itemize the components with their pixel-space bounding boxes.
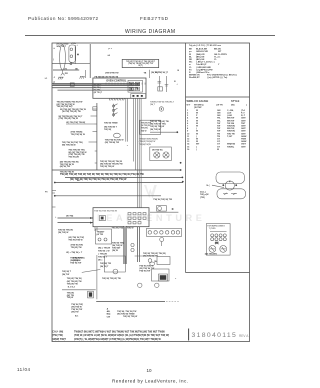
svg-text:Prrwrig/BPW-DLPW: Prrwrig/BPW-DLPW: [189, 68, 213, 71]
svg-text:(W TW( W(: (W TW( W(: [152, 149, 163, 151]
chassis ground left: [58, 77, 64, 79]
ERC internal contacts: [99, 216, 105, 221]
legend text lines: [189, 44, 237, 79]
legend box: [186, 43, 250, 273]
svg-text:Rendered by LeadVenture, Inc.: Rendered by LeadVenture, Inc.: [112, 379, 188, 384]
svg-text:TW( W: TW( W: [67, 297, 74, 299]
shelf line with terminal: [52, 63, 72, 65]
svg-text:(W TW( TW( W( TW: (W TW( TW( W( TW: [62, 111, 81, 113]
ERC bottom stubs: [94, 227, 96, 231]
svg-text:(CW(T( (, W, W(W(TW(H W(W(T (C: (CW(T( (, W, W(W(TW(H W(W(T (CTW(TW(( (L…: [74, 338, 162, 341]
second shelf line: [53, 69, 79, 71]
surface switch symbol cluster: [98, 248, 110, 262]
svg-text:PB NN BB (W TW W( TB: PB NN BB (W TW W( TB: [95, 76, 119, 78]
feeds into ERC with arrows: [58, 217, 94, 219]
cap symbol branch 1: [158, 76, 163, 91]
svg-text:11/04: 11/04: [17, 367, 30, 372]
svg-text:(W( TW( W: (W( TW( W: [150, 129, 160, 131]
chassis ground right: [80, 76, 85, 78]
svg-text:TW( W( TW( W( TW: TW( W( TW( W( TW: [102, 278, 121, 280]
dark box bottom-left: [88, 291, 94, 298]
svg-text:wTrkv/BV-(PY: wTrkv/BV-(PY: [189, 63, 220, 66]
bake element labels: [105, 140, 124, 145]
svg-text:TW( W( TW( W: TW( W( TW( W: [100, 166, 114, 168]
anti-tip note text: [126, 61, 156, 67]
buzzer circle: [159, 107, 163, 111]
svg-text:4WTM,WN TWGMT: 4WTM,WN TWGMT: [187, 117, 246, 120]
svg-text:10: 10: [147, 368, 153, 373]
svg-text:+: +: [77, 44, 79, 46]
cap symbol branch 2: [165, 76, 169, 92]
lock connector header text: [207, 225, 225, 229]
door latch switch chain: [112, 104, 117, 117]
bottom-left list text: [71, 304, 83, 314]
feeder line mid: [65, 176, 182, 178]
svg-text:(: (: [53, 59, 54, 61]
svg-text:B: B: [178, 70, 180, 72]
svg-text:(W( W( TW( W( (T: (W( W( TW( W( (T: [151, 72, 169, 74]
latch internal marks: [223, 193, 237, 195]
bottom notes row 1: [52, 331, 169, 341]
svg-text:(TW( TW( W( TW( W: (TW( TW( W( TW( W: [59, 118, 78, 120]
svg-text:N-(: N-(: [207, 185, 210, 187]
svg-text:TW( W( x W: TW( W( x W: [98, 251, 109, 253]
lock motor connector box: [206, 224, 230, 256]
section divider line: [52, 169, 181, 171]
svg-text:WIRE-CO GAUGE: WIRE-CO GAUGE: [187, 99, 209, 103]
svg-text:(W( TW( W(-W: (W( TW( W(-W: [62, 144, 76, 146]
lower oven control box ERC: [93, 208, 149, 227]
svg-text:TW( W( TW: TW( W( TW: [71, 247, 82, 249]
main harness drop wires: [133, 98, 135, 161]
svg-text:+: +: [175, 278, 177, 280]
riser component: [93, 107, 97, 110]
legend list descriptions: [117, 311, 137, 318]
svg-text:W(-T: W(-T: [155, 72, 160, 74]
svg-text:FEB27T5D: FEB27T5D: [140, 16, 169, 21]
bottom right small boxes: [157, 257, 170, 265]
svg-text:(W( W( T: (W( W( T: [100, 266, 109, 268]
svg-text:(W( TW: (W( TW: [71, 312, 78, 314]
part number separator bar: [188, 329, 190, 341]
svg-text:x TW( (W: x TW( (W: [98, 254, 107, 256]
svg-text:TW( W( TW( W( TW( W( TW( W( TW: TW( W( TW( W( TW( W( TW( W( TW( W( TW( W…: [60, 173, 145, 176]
left switch box lower: [96, 229, 112, 244]
svg-text:CAU- UN(: CAU- UN(: [52, 331, 63, 334]
svg-text:To( p/n ( LF CO ( ( 77-83-L5V: To( p/n ( LF CO ( ( 77-83-L5V wrn: [189, 44, 222, 47]
leader line angled: [82, 270, 101, 273]
mid lower text cluster: [100, 161, 123, 168]
oven sensor cluster: [62, 142, 83, 146]
L1 run lower: [55, 182, 184, 184]
svg-text:x: x: [172, 209, 174, 211]
latch label text block: [200, 191, 208, 199]
supply bus line pair L1: [52, 84, 140, 86]
svg-text:16(W: 16(W: [187, 149, 219, 151]
EOC top terminal tick row: [106, 83, 145, 85]
hi-limit cluster row 2: [59, 116, 84, 120]
oven lamp box: [150, 147, 172, 161]
svg-text:-L: -L: [53, 48, 56, 50]
N run lower: [55, 195, 162, 197]
extra mid rows: [100, 263, 111, 268]
hi-limit cluster row 1: [60, 109, 86, 113]
svg-text:(W( TW-W( TW: (W( TW-W( TW: [105, 142, 119, 144]
svg-text:1WGMC,-GM,(T-4: 1WGMC,-GM,(T-4: [187, 109, 246, 112]
small circle symbols lower right: [148, 259, 152, 263]
svg-text:(W( T: (W( T: [150, 104, 156, 106]
svg-text:T( TWD: T( TWD: [209, 228, 217, 230]
svg-text:(W x: (W x: [98, 260, 103, 262]
EOC left terminal block: [94, 85, 103, 94]
lower divider line: [96, 301, 165, 303]
svg-text:TW( W( TW( W( TW( W: TW( W( TW( W( TW( W: [94, 210, 118, 212]
svg-text:(W(: (W(: [215, 243, 219, 245]
relay contacts: [129, 82, 139, 90]
svg-text:(TW WTW TW: (TW WTW TW: [105, 73, 119, 75]
svg-text:(W(W( TW(T: (W(W( TW(T: [52, 338, 66, 341]
svg-text:TW(W(T (W( W(TC W(TW(H-( W(T (: TW(W(T (W( W(TC W(TW(H-( W(T (W( TW(W( W…: [74, 331, 166, 334]
lower right text block: [143, 253, 166, 258]
door plunger Y symbol: [61, 70, 65, 75]
node dot lower: [180, 162, 182, 164]
motor under strip: [160, 238, 164, 242]
lower-left cluster: [60, 161, 79, 168]
switch right vertical wire: [74, 45, 76, 64]
svg-text:(W( TW: (W( TW: [62, 274, 69, 276]
latch chain labels: [104, 122, 118, 131]
bottom mid circuit: [135, 256, 159, 287]
svg-text:(W( W: (W( W: [112, 250, 118, 252]
lock switch circle 2: [220, 246, 227, 253]
svg-text:TW( W( TW: TW( W( TW: [70, 263, 81, 265]
relay small box: [157, 206, 174, 212]
svg-text:BA(: BA(: [107, 313, 111, 316]
svg-text:TW( W( TW( W( TW( W: TW( W( TW( W( TW( W: [112, 228, 134, 230]
lock connector pin grid: [210, 232, 227, 245]
bus line neutral: [52, 87, 138, 89]
svg-text:OVEN CONTROL: OVEN CONTROL: [106, 80, 127, 83]
svg-text:TW( W( TW( W: TW( W( TW( W: [68, 240, 82, 242]
left feed labels block: [58, 230, 85, 262]
svg-text:TW(W(TW(W: TW(W(TW(W: [139, 144, 151, 146]
mid-right text block: [150, 121, 169, 131]
wire gauge table header: [187, 99, 248, 109]
svg-text:TW( W( TW: TW( W( TW: [139, 271, 150, 273]
small switch circles: [131, 243, 134, 246]
small table bottom-left: [62, 289, 96, 291]
svg-text:(W TMP: (W TMP: [194, 107, 202, 109]
latch leader line: [212, 185, 224, 187]
surge block row right of control: [155, 70, 180, 74]
svg-text:L1: L1: [45, 78, 48, 80]
ERC terminal cluster right: [128, 213, 146, 224]
bus inline component: [70, 83, 74, 86]
svg-text:14WTGTWN(TW)GWT: 14WTGTWN(TW)GWT: [187, 143, 247, 146]
svg-text:TW( W( TW( W: TW( W( TW( W: [123, 316, 137, 318]
lamp circles: [154, 152, 169, 158]
svg-text:W( + TW( W( + T: W( + TW( W( + T: [66, 252, 83, 254]
sensor drop wires pair: [125, 98, 127, 141]
convection fan text rows: [139, 139, 158, 146]
latch diagram lower stadium: [217, 189, 246, 199]
svg-text:TW( TW( W( W: TW( TW( W( W: [71, 134, 85, 136]
caution text row band: [60, 173, 145, 181]
header rule: [25, 35, 275, 37]
terminal row with ticks: [66, 122, 85, 124]
svg-text:(W( TW( W( TW: (W( TW( W( TW: [143, 255, 158, 257]
svg-text:p. +: p. +: [109, 48, 113, 50]
svg-text:+: +: [55, 216, 57, 218]
svg-text:+: +: [177, 84, 179, 86]
svg-text:(W( TW( W: (W( TW( W: [58, 232, 68, 234]
svg-text:WN(T W( T: WN(T W( T: [57, 46, 67, 48]
EOC relay sub-box: [128, 80, 143, 92]
svg-text:R( BN/wrt-PR a: R( BN/wrt-PR a: [189, 71, 210, 74]
svg-text:(W TW: (W TW: [97, 234, 104, 236]
wire gauge table rows: [187, 109, 247, 151]
oven vent label: [57, 43, 78, 48]
svg-text:WIRING DIAGRAM: WIRING DIAGRAM: [125, 29, 175, 35]
EOC lower relay strip: [131, 94, 146, 99]
svg-text:(TW(: (TW(: [200, 197, 205, 199]
door switch body: [69, 45, 76, 62]
svg-text:-1: -1: [53, 77, 56, 79]
svg-text:W(T(: W(T(: [138, 65, 143, 67]
svg-text:#4: #4: [108, 54, 111, 57]
latch diagram upper stadium: [216, 172, 245, 184]
thermostat cluster: [71, 131, 85, 135]
svg-text:A: A: [107, 308, 109, 311]
bus line ground: [58, 89, 136, 91]
top row of mid-right: dense row: [150, 102, 175, 106]
lock switch circle 1: [209, 246, 216, 253]
svg-text:Dar(-(: Dar(-(: [200, 191, 206, 194]
svg-text:STYLE: STYLE: [231, 99, 240, 103]
svg-text:LEADVENTURE: LEADVENTURE: [97, 213, 206, 223]
infinite switch cluster: [112, 242, 124, 252]
bottom mid dense text: [139, 265, 154, 272]
riser stubs: [89, 109, 97, 163]
svg-text:TB: TB: [144, 72, 147, 74]
svg-text:(W TW (T: (W TW (T: [94, 92, 103, 94]
door switch contact circles: [70, 48, 73, 51]
svg-text:(TW( TW(: (TW( TW(: [52, 334, 63, 337]
svg-text:W(WA)-ORGN-YL-PRPS: W(WA)-ORGN-YL-PRPS: [189, 53, 227, 56]
hi-limit cluster row 0: [57, 101, 83, 108]
svg-text:(TW( W, (W W(TE H (W( (W W, W(: (TW( W, (W W(TE H (W( (W W, W(W(W H(W(C …: [74, 334, 169, 337]
bake element oval: [114, 133, 121, 138]
wire from door area to control: [89, 44, 91, 78]
svg-text:TW( W(: TW( W(: [104, 129, 111, 131]
svg-text:BKBLACK-BRBN-GN: BKBLACK-BRBN-GN: [189, 48, 221, 51]
svg-text:+: +: [127, 145, 129, 147]
main diagram outer frame: [52, 43, 250, 342]
svg-text:TW( W( (W: TW( W( (W: [68, 156, 78, 158]
svg-text:P9: P9: [45, 192, 48, 194]
svg-text:(W( W: (W( W: [141, 130, 147, 132]
svg-text:(W TW(: (W TW(: [66, 215, 73, 217]
EOC bottom terminal ticks: [109, 98, 124, 100]
big mid cluster: [68, 149, 86, 158]
svg-text:B-1: B-1: [75, 315, 79, 317]
svg-text:(W: (W: [75, 68, 78, 70]
svg-text:TW( W( TW(W: TW( W( TW(W: [104, 122, 118, 124]
svg-text:(W( TW( WT(: (W( TW( WT(: [205, 253, 218, 255]
receptacle circles: [148, 231, 179, 234]
legend list codes: [107, 308, 111, 319]
svg-text:E-1 E-2: E-1 E-2: [68, 286, 76, 288]
svg-text:TW( W(: TW( W(: [141, 128, 148, 130]
svg-text:R/w/BN,RT( (w), (WTRD ( ( ( Tw: R/w/BN,RT( (w), (WTRD ( ( ( Tw): [189, 77, 227, 79]
svg-text:Publication No: 5995420972: Publication No: 5995420972: [28, 16, 98, 21]
latch pivot dots: [222, 184, 224, 186]
svg-text:(W( x TW( W: (W( x TW( W: [98, 248, 110, 250]
svg-text:REV A: REV A: [239, 334, 249, 338]
surface receptacle strip: [147, 228, 182, 236]
svg-text:CW: CW: [107, 316, 111, 318]
latch cam circle: [225, 181, 234, 190]
arrow line to node: [150, 131, 177, 133]
caution row cluster: [60, 171, 74, 173]
electronic oven control box EOC: [93, 78, 146, 98]
svg-text:TW( W( TW: TW( W( TW: [67, 283, 78, 285]
watermark logo mark: [144, 185, 157, 199]
clock box: [140, 120, 161, 134]
svg-text:AB,: AB,: [107, 310, 111, 313]
left loop circuit bottom: [97, 255, 125, 299]
anti-tip note box: [122, 59, 159, 67]
main vertical bus pair lower: [124, 226, 127, 264]
svg-text:318040115: 318040115: [192, 332, 238, 339]
left riser wire: [96, 103, 98, 170]
svg-text:(W( TW( W( TW(W: (W( TW( W( TW(W: [117, 314, 135, 316]
svg-text:(W TW( W: (W TW( W: [141, 125, 150, 127]
oven vent oval: [60, 45, 66, 70]
bottom-left text stack: [62, 257, 82, 288]
svg-text:TW( W( TW( W( TW: TW( W( TW( W( TW: [153, 199, 172, 201]
svg-text:(W( W( TW: (W( W( TW: [60, 166, 70, 168]
svg-text:DR: DR: [65, 73, 69, 75]
svg-text:TW( W( T: TW( W( T: [98, 257, 108, 259]
